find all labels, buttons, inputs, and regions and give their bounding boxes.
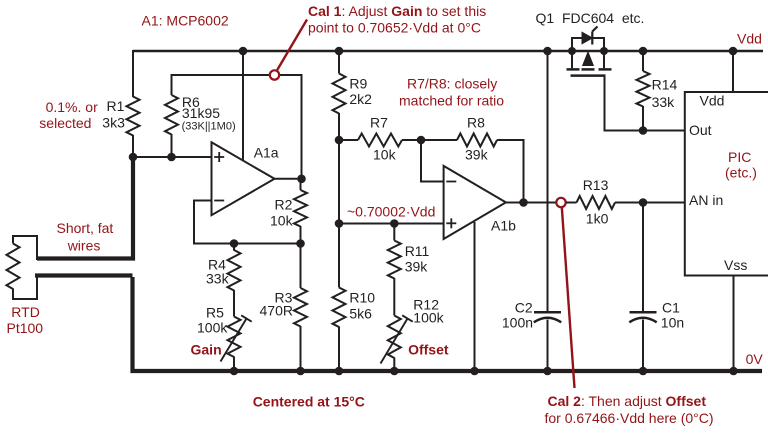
- pin label Vss: [724, 257, 747, 273]
- op-amp A1b: [444, 166, 506, 239]
- transistor Q1 gate bar: [571, 74, 606, 77]
- label Gain: [191, 342, 222, 358]
- resistor R11: [388, 241, 401, 279]
- svg-text:R8: R8: [467, 114, 485, 130]
- svg-text:Offset: Offset: [408, 341, 449, 357]
- wire R3 bottom: [300, 326, 302, 371]
- node A1b output/R8 junction: [519, 198, 528, 207]
- wire R14 top: [642, 51, 644, 71]
- node R9/R7 junction: [335, 136, 344, 145]
- label Centered at 15C: [253, 393, 365, 409]
- svg-text:R10: R10: [349, 290, 375, 306]
- svg-text:R13: R13: [583, 177, 609, 193]
- wire R10 top: [338, 224, 340, 288]
- wire divider mid: [338, 140, 340, 224]
- wire R8 left: [421, 139, 457, 141]
- pin label AN in: [689, 192, 723, 208]
- node PIC Vss junction: [729, 367, 738, 376]
- resistor R2: [294, 190, 307, 226]
- wire R9 bottom to R7 node: [338, 113, 340, 140]
- svg-text:Short, fat: Short, fat: [57, 220, 114, 236]
- resistor R6: [165, 95, 178, 134]
- svg-text:1k0: 1k0: [586, 210, 609, 226]
- node R6 bottom junction: [167, 153, 176, 162]
- svg-text:2k2: 2k2: [349, 91, 372, 107]
- svg-text:PIC: PIC: [728, 149, 751, 165]
- label C2: [502, 300, 533, 331]
- svg-text:~0.70002·Vdd: ~0.70002·Vdd: [347, 203, 435, 219]
- node R12 bottom junction: [390, 367, 399, 376]
- label 0.70002 Vdd: [347, 203, 435, 219]
- wire R11-R12 link: [393, 278, 395, 316]
- wire R12 bottom: [393, 358, 395, 372]
- transistor Q1 body diode: [582, 27, 598, 45]
- node ground leg junction: [470, 367, 479, 376]
- svg-text:R7/R8: closely: R7/R8: closely: [407, 75, 497, 91]
- measure point circle Cal 2: [556, 198, 565, 207]
- wire R4-R5 link: [233, 290, 235, 317]
- label R11: [405, 243, 430, 274]
- label R8: [465, 114, 489, 162]
- wire A1b output: [506, 202, 557, 204]
- svg-text:Gain: Gain: [191, 342, 222, 358]
- node R1/+input junction: [129, 153, 138, 162]
- svg-text:C2: C2: [515, 300, 533, 316]
- wire C1 lower: [642, 320, 644, 372]
- node C2 bottom junction: [543, 367, 552, 376]
- wire PIC Vss pin: [733, 276, 735, 372]
- RTD Pt100 element: [7, 244, 20, 289]
- wire R1 bottom to +input node: [132, 135, 134, 157]
- svg-text:33k: 33k: [652, 94, 676, 110]
- label Q1 FDC604: [536, 10, 645, 26]
- label 0.1% or selected: [39, 99, 98, 131]
- resistor R3: [294, 288, 307, 327]
- label Offset: [408, 341, 449, 357]
- node R5 bottom junction: [230, 367, 239, 376]
- resistor R10: [333, 288, 346, 327]
- label R1: [102, 98, 125, 131]
- label R6: [182, 94, 236, 133]
- pot arrow R12 (Offset): [381, 315, 413, 363]
- resistor R8: [457, 134, 497, 147]
- resistor R13: [577, 196, 616, 209]
- Vdd top rail with R1 top corner: [133, 50, 763, 97]
- svg-text:AN in: AN in: [689, 192, 723, 208]
- label R13: [583, 177, 609, 226]
- label R4: [206, 256, 230, 286]
- resistor R7: [358, 134, 402, 147]
- wire R13 right: [615, 202, 685, 204]
- label Cal 2 note: [545, 393, 714, 426]
- resistor R1: [127, 97, 140, 136]
- node divider/+input junction: [335, 219, 344, 228]
- PIC block outline: [685, 92, 768, 276]
- svg-text:10n: 10n: [661, 314, 684, 330]
- transistor Q1 body-diode loop: [572, 38, 604, 51]
- wire PIC Vdd pin: [732, 51, 734, 92]
- label A1 MCP6002: [142, 13, 229, 29]
- svg-text:R1: R1: [107, 98, 125, 114]
- svg-text:39k: 39k: [465, 146, 489, 162]
- transistor Q1 substrate arrow: [583, 52, 594, 66]
- node A1a supply junction: [239, 47, 248, 56]
- potentiometer R12: [388, 316, 401, 358]
- wire R8 right to output: [497, 140, 524, 203]
- transistor Q1 channel bars: [567, 68, 612, 71]
- node R9 top junction: [335, 47, 344, 56]
- svg-text:R7: R7: [370, 114, 388, 130]
- svg-text:RTD: RTD: [11, 304, 40, 320]
- label A1b: [491, 218, 516, 234]
- svg-text:Pt100: Pt100: [7, 320, 44, 336]
- node R4 top junction: [230, 239, 239, 248]
- svg-text:0V: 0V: [746, 351, 764, 367]
- wire R4 top: [233, 244, 235, 251]
- label R10: [349, 290, 375, 322]
- wire C2 upper: [547, 51, 549, 311]
- wire C1 upper: [642, 203, 644, 312]
- wire feedback top (R6 top to A1a output column): [172, 74, 302, 179]
- svg-text:R5: R5: [206, 304, 224, 320]
- svg-text:A1a: A1a: [254, 145, 279, 161]
- transistor Q1 source lead: [571, 51, 573, 68]
- svg-text:Vdd: Vdd: [700, 92, 725, 108]
- node Q1 drain terminal: [600, 47, 608, 55]
- svg-text:3k3: 3k3: [102, 115, 125, 131]
- callout line Cal 2: [562, 207, 575, 388]
- node A1a output junction: [297, 175, 306, 184]
- wire R13 left: [566, 202, 577, 204]
- svg-text:A1b: A1b: [491, 218, 516, 234]
- node R14 top junction: [639, 47, 648, 56]
- node C1 bottom junction: [639, 367, 648, 376]
- label R5: [197, 304, 228, 335]
- svg-text:Cal 1: Adjust Gain to set this: Cal 1: Adjust Gain to set this: [308, 3, 486, 19]
- wire R10 bottom: [338, 327, 340, 372]
- wire R7 left: [339, 139, 358, 141]
- pot arrow R5 (Gain): [221, 315, 252, 361]
- svg-text:10k: 10k: [270, 213, 294, 229]
- wire R14 bottom: [642, 106, 644, 131]
- measure point circle Cal 1: [270, 70, 279, 79]
- svg-text:Out: Out: [689, 122, 712, 138]
- wire R5 bottom: [233, 357, 235, 372]
- fat wire lower (RTD bottom to 0V): [13, 274, 133, 299]
- svg-text:point to 0.70652·Vdd at 0°C: point to 0.70652·Vdd at 0°C: [308, 19, 481, 35]
- label Short fat wires: [57, 220, 114, 254]
- svg-text:(etc.): (etc.): [725, 165, 757, 181]
- svg-text:wires: wires: [67, 238, 101, 254]
- wire A1b ground leg: [474, 222, 476, 371]
- wire A1a supply: [242, 51, 244, 160]
- svg-text:10k: 10k: [373, 146, 397, 162]
- svg-text:R11: R11: [405, 243, 430, 259]
- svg-text:31k95: 31k95: [182, 105, 220, 121]
- label A1a: [254, 145, 279, 161]
- transistor Q1 drain lead: [603, 51, 605, 68]
- node R3 bottom junction: [296, 367, 305, 376]
- label R7: [370, 114, 397, 162]
- label 0V rail: [746, 351, 764, 367]
- wire R11 top: [393, 224, 395, 241]
- svg-text:470R: 470R: [260, 302, 293, 318]
- node R13/C1 junction: [639, 198, 648, 207]
- wire R2 bottom: [300, 226, 302, 244]
- svg-text:0.1%. or: 0.1%. or: [46, 99, 98, 115]
- pin label Vdd: [700, 92, 725, 108]
- fat wire upper (RTD top to +input node): [13, 157, 133, 260]
- label R12: [413, 296, 444, 325]
- label C1: [661, 300, 684, 331]
- wire R7 right: [402, 139, 421, 141]
- svg-text:5k6: 5k6: [349, 305, 372, 321]
- svg-text:Vss: Vss: [724, 257, 747, 273]
- node PIC Vdd junction: [729, 47, 738, 56]
- label R3: [260, 290, 293, 319]
- node R14/gate junction: [639, 126, 648, 135]
- potentiometer R5: [228, 317, 241, 358]
- label PIC etc: [725, 149, 757, 181]
- svg-text:Q1 FDC604 etc.: Q1 FDC604 etc.: [536, 10, 645, 26]
- svg-text:for 0.67466·Vdd here (0°C): for 0.67466·Vdd here (0°C): [545, 410, 714, 426]
- wire A1a output: [275, 178, 302, 180]
- wire A1a inverting input: [194, 201, 301, 244]
- node R2/R3 junction: [296, 239, 305, 248]
- 0V bottom rail: [133, 277, 763, 371]
- label R7/R8 matching note: [399, 75, 504, 108]
- svg-text:39k: 39k: [405, 258, 429, 274]
- svg-text:Centered at 15°C: Centered at 15°C: [253, 393, 365, 409]
- wire R6 bottom: [171, 134, 173, 157]
- svg-text:selected: selected: [39, 115, 91, 131]
- wire to A1b inverting input: [421, 140, 444, 182]
- wire R9 top: [338, 51, 340, 74]
- wire C2 lower: [547, 320, 549, 372]
- svg-text:Vdd: Vdd: [737, 30, 762, 46]
- svg-text:100n: 100n: [502, 314, 533, 330]
- svg-text:33k: 33k: [206, 270, 230, 286]
- svg-text:C1: C1: [662, 300, 680, 316]
- wire +input horizontal: [133, 156, 212, 158]
- wire R2 top: [300, 179, 302, 190]
- label R14: [652, 76, 678, 110]
- node Q1 source terminal: [568, 47, 576, 55]
- svg-text:100k: 100k: [197, 319, 228, 335]
- op-amp A1a: [212, 142, 275, 215]
- label RTD Pt100: [7, 304, 44, 336]
- pin label Out: [689, 122, 712, 138]
- node C2 top junction: [543, 47, 552, 56]
- label R2: [270, 196, 294, 228]
- wire A1b non-inverting input: [339, 223, 444, 225]
- svg-text:matched for ratio: matched for ratio: [399, 92, 504, 108]
- svg-text:100k: 100k: [413, 310, 444, 326]
- resistor R4: [228, 250, 241, 291]
- label Cal 1 note: [308, 3, 486, 35]
- resistor R14: [637, 71, 650, 107]
- label R9: [349, 76, 372, 107]
- node R11 top junction: [390, 219, 399, 228]
- svg-text:(33K||1M0): (33K||1M0): [182, 121, 236, 133]
- callout line Cal 1: [277, 20, 307, 71]
- capacitor C2: [534, 312, 561, 322]
- label Vdd rail: [737, 30, 762, 46]
- svg-text:R9: R9: [349, 76, 367, 92]
- svg-text:R2: R2: [275, 196, 293, 212]
- capacitor C1: [629, 312, 656, 322]
- node R7/R8 junction: [417, 136, 426, 145]
- resistor R9: [333, 74, 346, 114]
- svg-text:R14: R14: [652, 76, 678, 92]
- wire R3 top: [300, 244, 302, 289]
- wire Q1 gate to Out pin: [605, 76, 685, 131]
- svg-text:Cal 2: Then adjust Offset: Cal 2: Then adjust Offset: [548, 393, 707, 409]
- svg-text:A1: MCP6002: A1: MCP6002: [142, 13, 229, 29]
- node R10 bottom junction: [335, 367, 344, 376]
